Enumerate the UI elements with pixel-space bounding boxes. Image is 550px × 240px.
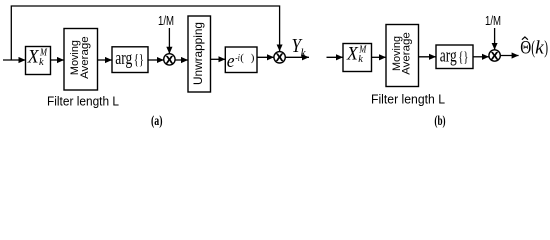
block Moving Average (a): [64, 29, 98, 91]
wire: output Y_k (a): [285, 56, 309, 58]
svg-text:X: X: [276, 52, 284, 64]
svg-text:1/M: 1/M: [485, 14, 501, 28]
svg-text:X: X: [346, 43, 359, 64]
svg-text:): ): [544, 37, 548, 58]
wire: X block to Moving Average (b): [372, 56, 387, 58]
svg-text:Average: Average: [401, 32, 413, 75]
svg-text:): ): [251, 52, 255, 64]
svg-text:arg: arg: [440, 45, 457, 66]
wire: input line into X_k^M block (a): [3, 59, 26, 61]
svg-text:k: k: [535, 37, 544, 58]
svg-text:Unwrapping: Unwrapping: [191, 22, 205, 85]
wire: Unwrapping to exponential block (a): [211, 58, 226, 60]
wire: 1/M down into multiplier (b): [494, 28, 496, 50]
wire: feedback branch from input node over the top to output multiplier (a): [11, 6, 279, 60]
multiplier 1 (a): [164, 54, 175, 67]
block arg{} (a): [112, 47, 148, 73]
wire: input line into X_k^M block (b): [327, 56, 344, 58]
label Y_k (a): [292, 36, 307, 59]
wire: Moving Average to arg block (b): [419, 56, 437, 58]
svg-text:X: X: [166, 54, 174, 66]
wire: multiplier 1 to Unwrapping (a): [175, 59, 188, 61]
multiplier 2 (a): [274, 52, 285, 65]
svg-text:arg: arg: [115, 48, 132, 69]
wire: arg block to multiplier 1 (a): [148, 59, 164, 61]
svg-text:X: X: [491, 50, 499, 62]
svg-text:(: (: [240, 52, 244, 64]
svg-text:Filter length L: Filter length L: [371, 92, 445, 107]
svg-text:(a): (a): [151, 114, 163, 129]
block X_k^M (a): [26, 46, 51, 74]
label theta-hat(k) (b): [520, 37, 548, 59]
svg-text:Filter length L: Filter length L: [47, 94, 119, 109]
wire: Moving Average to arg block (a): [98, 59, 113, 61]
svg-text:(b): (b): [434, 114, 445, 129]
svg-text:e: e: [227, 51, 235, 72]
wire: exponential block to multiplier 2 (a): [257, 56, 274, 58]
wire: X block to Moving Average (a): [51, 59, 65, 61]
wire: arg block to multiplier (b): [473, 56, 489, 58]
wire: output theta hat (b): [500, 55, 518, 57]
block Unwrapping (a): [188, 16, 211, 92]
svg-text:X: X: [27, 46, 40, 67]
svg-text:{}: {}: [134, 52, 144, 68]
svg-text:1/M: 1/M: [158, 14, 174, 28]
svg-text:{}: {}: [458, 49, 468, 65]
svg-text:k: k: [301, 45, 307, 59]
svg-text:-i: -i: [235, 52, 240, 64]
wire: 1/M down into multiplier 1 (a): [168, 28, 170, 54]
multiplier (b): [489, 50, 500, 63]
svg-text:Θ: Θ: [520, 37, 531, 58]
svg-text:Average: Average: [79, 36, 91, 79]
block Moving Average (b): [386, 25, 419, 87]
block e^-i( ) (a): [225, 47, 257, 73]
block arg{} (b): [436, 45, 473, 69]
block X_k^M (b): [343, 43, 372, 71]
